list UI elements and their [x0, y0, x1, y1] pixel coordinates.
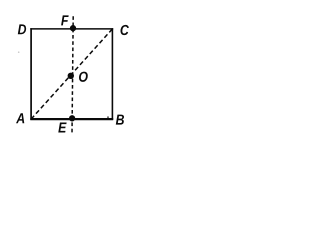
label E [58, 123, 66, 133]
label A [16, 113, 24, 123]
rectangle ABCD: bottom edge AB [30, 118, 113, 120]
speck near corner B inside rectangle [107, 116, 109, 118]
label D [18, 24, 26, 34]
faint speck left of rectangle [18, 51, 20, 53]
vertical dashed line FE [72, 16, 73, 134]
label O [79, 72, 88, 82]
diagonal dashed line AC [31, 29, 112, 119]
point O (dot) [68, 73, 74, 79]
rectangle ABCD: top edge DC [30, 28, 113, 30]
rectangle ABCD: left edge DA [30, 28, 32, 120]
label F [61, 15, 69, 25]
rectangle ABCD: right edge CB [111, 28, 113, 120]
label C [121, 25, 129, 35]
point F (dot) [70, 25, 76, 31]
point E (dot) [69, 115, 75, 121]
label B [116, 115, 124, 125]
